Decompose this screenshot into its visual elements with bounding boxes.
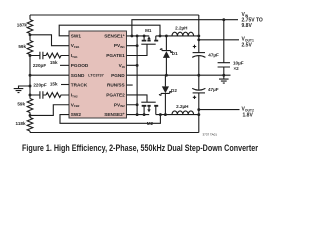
svg-text:2.2µH: 2.2µH (176, 104, 189, 109)
svg-text:15k: 15k (50, 82, 58, 87)
svg-text:220pF: 220pF (33, 63, 46, 68)
svg-text:118k: 118k (16, 121, 26, 126)
svg-text:220pF: 220pF (33, 83, 46, 88)
svg-text:PGATE2: PGATE2 (106, 93, 125, 98)
svg-text:SGND: SGND (71, 73, 85, 78)
svg-text:M2: M2 (147, 121, 154, 126)
svg-text:SENSE2+: SENSE2+ (104, 112, 125, 117)
svg-text:PGOOD: PGOOD (71, 63, 89, 68)
svg-text:PGND: PGND (111, 73, 125, 78)
svg-text:×2: ×2 (234, 66, 240, 71)
svg-text:SW2: SW2 (71, 112, 82, 117)
svg-text:59k: 59k (18, 44, 26, 49)
svg-text:M1: M1 (145, 28, 152, 33)
svg-text:15k: 15k (50, 60, 58, 65)
svg-text:D1: D1 (172, 51, 178, 56)
svg-text:2.2µH: 2.2µH (175, 25, 188, 30)
svg-text:LTC3737: LTC3737 (88, 74, 104, 78)
svg-text:SENSE1+: SENSE1+ (104, 33, 125, 38)
svg-text:2.5V: 2.5V (242, 42, 253, 48)
svg-text:TRACK: TRACK (71, 83, 88, 88)
svg-text:3737 TA01: 3737 TA01 (203, 133, 218, 137)
svg-text:9.8V: 9.8V (242, 23, 253, 29)
svg-text:D2: D2 (171, 88, 177, 93)
svg-text:59k: 59k (17, 101, 25, 106)
svg-text:PGATE1: PGATE1 (106, 53, 125, 58)
svg-text:1.8V: 1.8V (243, 112, 254, 118)
svg-text:47µF: 47µF (208, 53, 219, 58)
svg-text:187k: 187k (17, 23, 28, 28)
svg-text:RUN/SS: RUN/SS (107, 83, 125, 88)
svg-text:Figure 1. High Efficiency, 2-P: Figure 1. High Efficiency, 2-Phase, 550k… (22, 143, 258, 153)
svg-text:47µF: 47µF (208, 87, 219, 92)
svg-text:SW1: SW1 (71, 33, 82, 38)
svg-text:10µF: 10µF (233, 61, 244, 66)
